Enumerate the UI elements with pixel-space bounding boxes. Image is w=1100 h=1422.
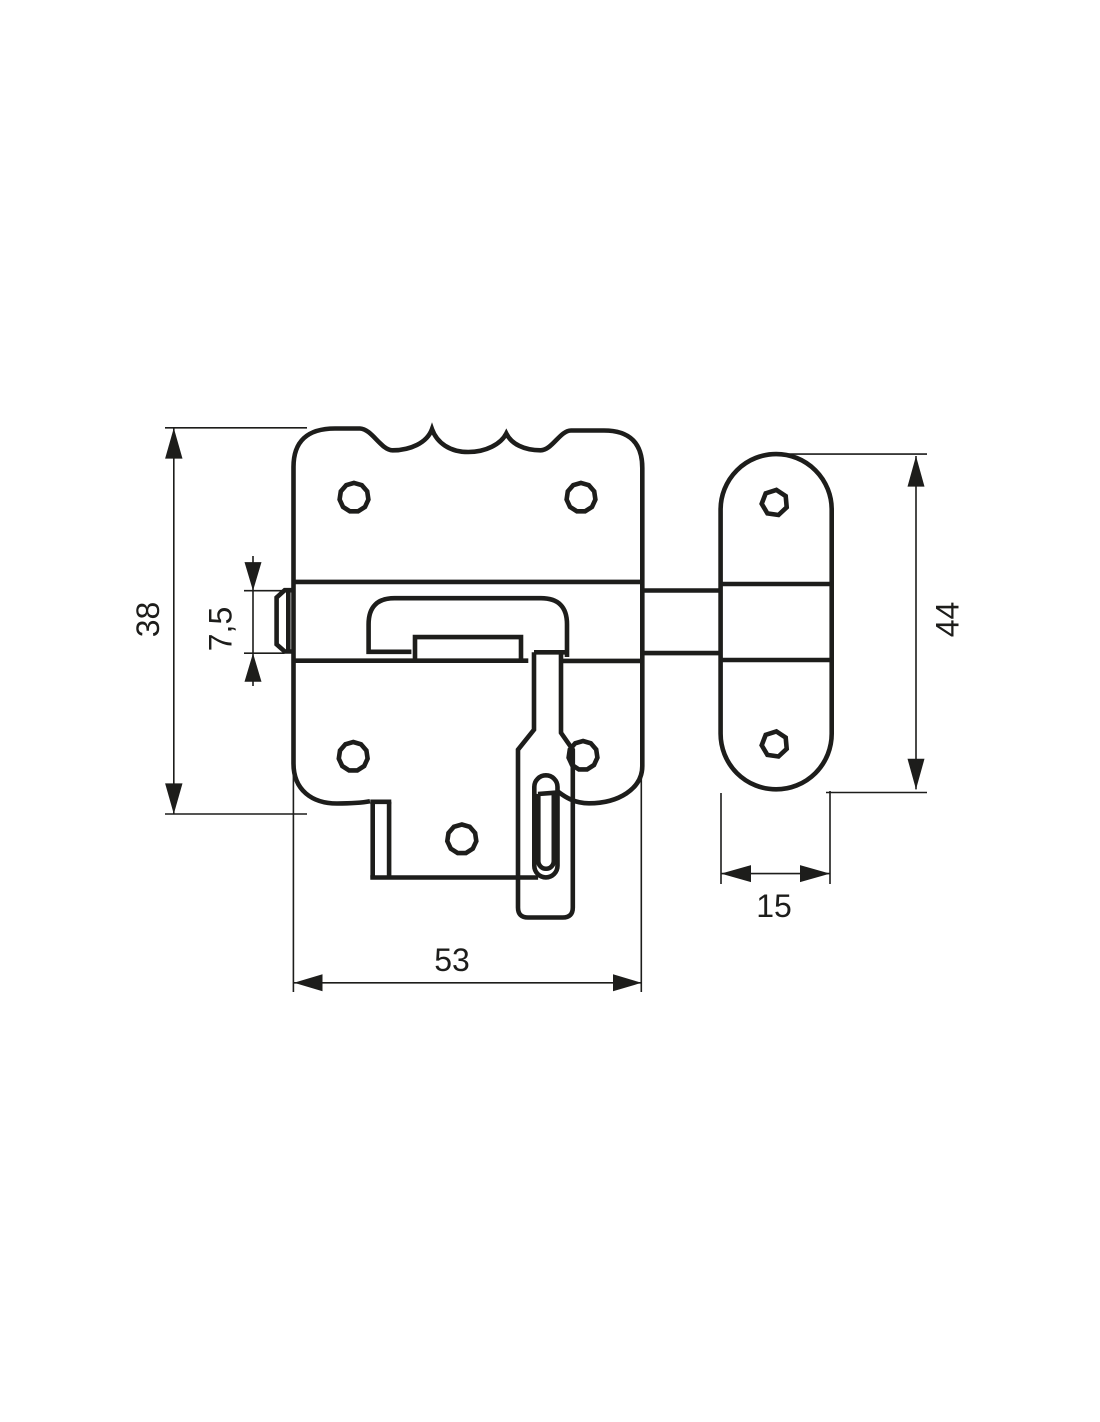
svg-text:53: 53 xyxy=(434,942,470,978)
svg-text:38: 38 xyxy=(130,602,166,638)
svg-text:7,5: 7,5 xyxy=(203,607,239,651)
svg-text:15: 15 xyxy=(756,888,792,924)
svg-text:44: 44 xyxy=(930,602,966,638)
